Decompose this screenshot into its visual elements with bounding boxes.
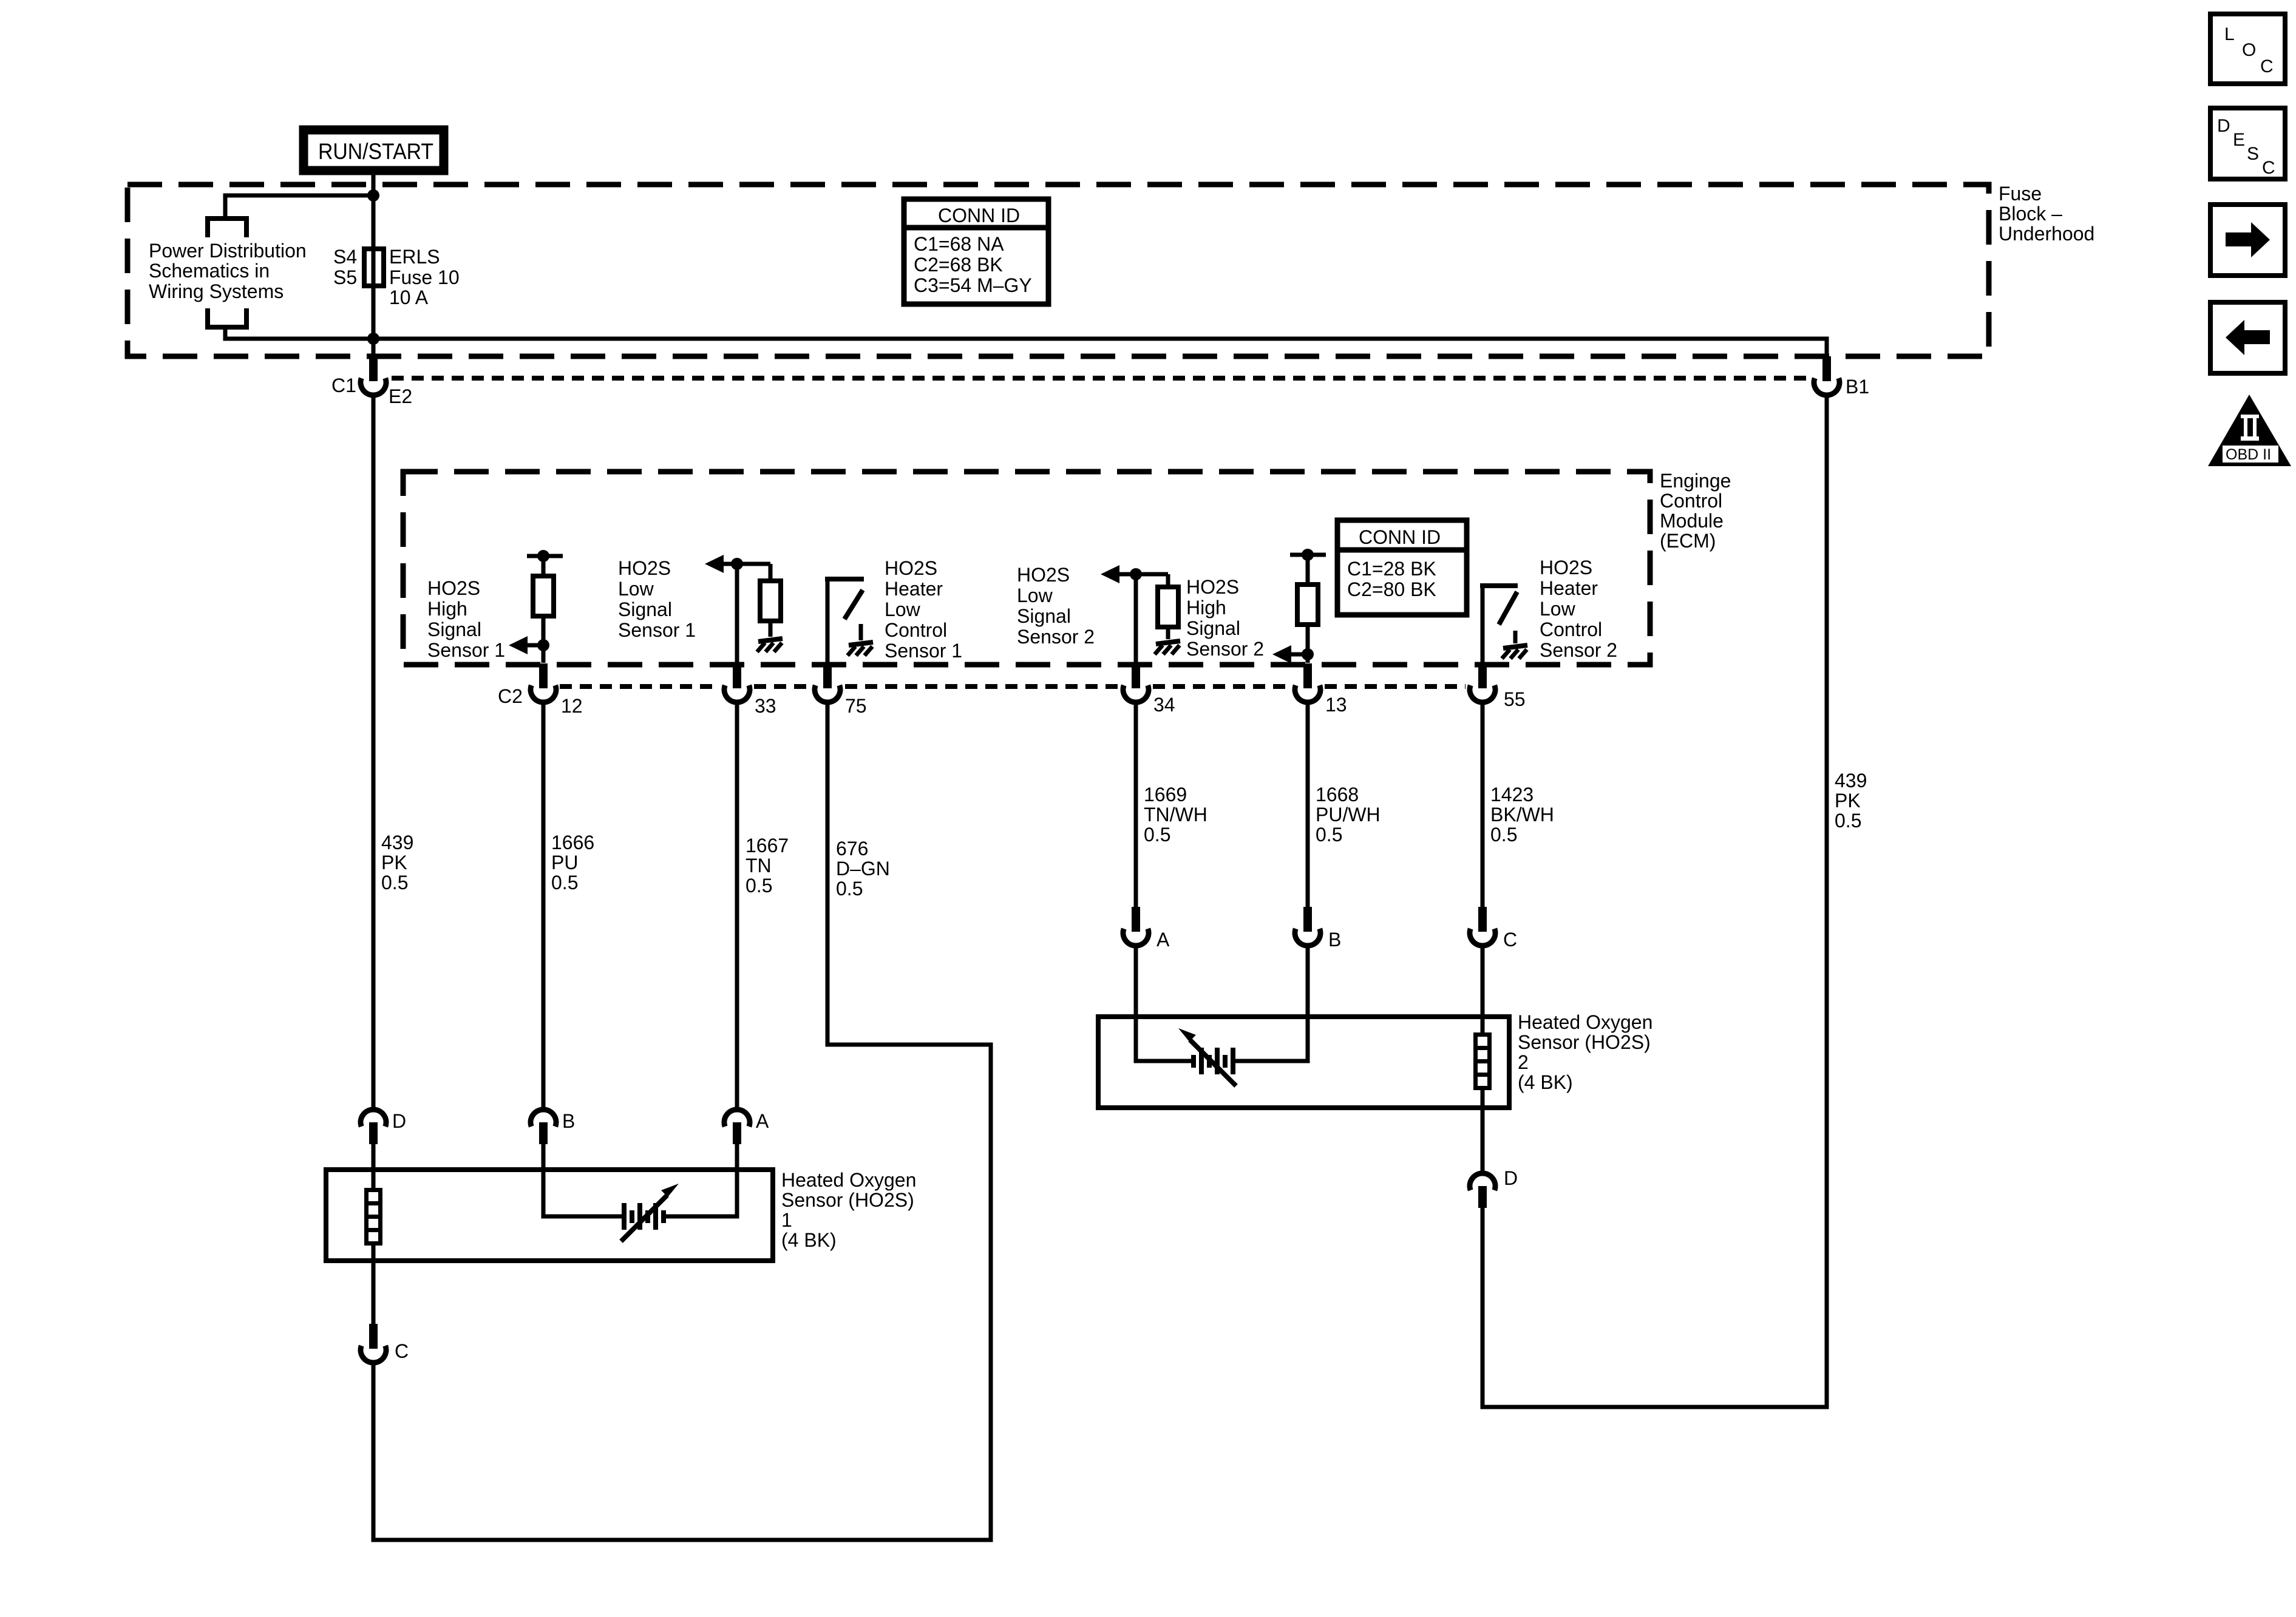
engine control module ECM (dashed box) [403,472,1650,665]
wire sensor1 C to 676 loop [372,1364,376,1378]
svg-text:D: D [2217,116,2230,136]
wire ignition feed from RUN/START box [372,175,376,249]
svg-text:439: 439 [1835,770,1867,792]
wire 1667 TN (pin 33 to sensor1 A) [735,703,739,1108]
RUN/START ignition feed box [304,130,444,171]
svg-text:C: C [2262,158,2275,178]
svg-text:Signal: Signal [618,598,672,620]
svg-text:10 A: 10 A [389,286,429,308]
transistor switch heater low control 1 [827,579,864,663]
label S4 S5 splice refs [333,246,357,288]
heated oxygen sensor HO2S 2 box [1098,1017,1509,1108]
svg-text:75: 75 [845,695,867,717]
wire 1423 BK/WH (pin 55 to sensor2 C) [1481,703,1485,919]
label HO2S Low Signal Sensor 1 [618,557,696,641]
svg-text:Control: Control [1660,490,1722,512]
svg-text:0.5: 0.5 [551,872,578,893]
resistor HO2S low signal sensor 1 [760,581,781,621]
svg-text:Sensor 1: Sensor 1 [618,619,696,641]
connector B sensor 2 [1295,907,1320,946]
svg-text:Sensor 1: Sensor 1 [885,640,962,662]
svg-text:HO2S: HO2S [618,557,671,579]
svg-text:PK: PK [381,852,407,873]
wire heater feed inside sensor2 [1481,947,1485,1171]
node junction dot group1 [537,639,549,651]
svg-text:B: B [1328,929,1341,951]
svg-text:Control: Control [885,619,947,641]
fuse block - underhood (dashed box) [127,185,1989,356]
svg-text:676: 676 [836,838,868,859]
svg-text:C2=68 BK: C2=68 BK [914,254,1003,276]
power distribution reference box (open bracket component) [208,219,246,327]
label Power Distribution Schematics in Wiring Systems [149,240,307,302]
resistor HO2S low signal sensor 2 [1158,587,1178,627]
heater element sensor 2 [1473,1032,1492,1090]
svg-text:Signal: Signal [427,619,481,640]
node dot top bar group5 [1302,549,1314,561]
svg-text:HO2S: HO2S [1540,557,1592,578]
svg-text:Heater: Heater [1540,577,1598,599]
svg-text:Power Distribution: Power Distribution [149,240,307,262]
svg-text:Underhood: Underhood [1999,223,2094,245]
ground chassis (heater low control 2) [1502,645,1527,659]
svg-text:PU: PU [551,852,578,873]
label 676 D-GN 0.5 [836,838,890,900]
svg-text:Heated Oxygen: Heated Oxygen [1518,1011,1652,1033]
connector A sensor 2 [1123,907,1149,946]
svg-text:D: D [1504,1167,1518,1189]
svg-text:S: S [2247,144,2259,164]
svg-text:Sensor 1: Sensor 1 [427,639,505,661]
svg-text:C1=28 BK: C1=28 BK [1347,558,1436,580]
connector A sensor 1 [724,1110,750,1144]
svg-text:S4: S4 [333,246,357,268]
wire arrow high signal 2 output [1272,645,1308,663]
node junction dot group5 [1302,648,1314,660]
svg-text:439: 439 [381,832,413,853]
svg-text:CONN ID: CONN ID [1359,526,1441,548]
label 1423 BK/WH 0.5 [1490,784,1554,846]
resistor HO2S high signal sensor 1 [533,576,554,616]
svg-text:Control: Control [1540,619,1602,640]
node junction dot S4 bus [367,189,379,202]
svg-text:B: B [562,1110,575,1132]
connector C1 E2 (fuse block to harness) [361,356,386,395]
label 1669 TN/WH 0.5 [1144,784,1207,846]
svg-text:C1=68 NA: C1=68 NA [914,233,1004,255]
node junction dot S5 bus [367,333,379,345]
svg-text:C2=80 BK: C2=80 BK [1347,578,1436,600]
CONN ID table (ECM connectors) [1337,520,1467,615]
svg-text:Sensor 2: Sensor 2 [1186,638,1264,660]
svg-text:0.5: 0.5 [1490,824,1517,846]
svg-text:C: C [1503,929,1517,951]
svg-text:B1: B1 [1846,376,1869,398]
svg-text:(4 BK): (4 BK) [781,1229,837,1251]
icon forward arrow box [2210,205,2285,276]
svg-text:High: High [1186,597,1226,619]
svg-text:TN/WH: TN/WH [1144,804,1207,825]
connector B1 (fuse block to harness right) [1814,356,1839,395]
svg-text:(ECM): (ECM) [1660,530,1716,552]
wire sensor1 A lead [664,1143,737,1216]
wire dotted connector line C1-B1 [392,376,1812,381]
svg-text:RUN/START: RUN/START [318,139,433,164]
wire from reference box to S5 junction [225,327,373,339]
svg-text:C2: C2 [498,685,523,707]
svg-text:(4 BK): (4 BK) [1518,1071,1573,1093]
label HO2S Heater Low Control Sensor 1 [885,557,962,662]
svg-text:Signal: Signal [1186,617,1240,639]
svg-text:HO2S: HO2S [427,577,480,599]
svg-text:HO2S: HO2S [885,557,937,579]
connector D sensor 1 [361,1110,386,1144]
icon LOC box [2210,14,2285,84]
svg-text:Fuse: Fuse [1999,183,2042,205]
wire resistor to ground group4 [1166,627,1170,639]
CONN ID table (fuse block connectors) [904,199,1048,304]
wire arrow low signal 2 output [1101,565,1119,583]
pin 33 connector [724,663,750,702]
label HO2S High Signal Sensor 2 [1186,576,1264,660]
label 1668 PU/WH 0.5 [1316,784,1381,846]
ground chassis (heater low control 1) [847,642,873,656]
pin 34 connector [1123,663,1149,702]
node junction dot group4 [1130,568,1142,580]
svg-text:Low: Low [618,578,654,600]
svg-text:33: 33 [755,695,776,717]
svg-text:Low: Low [1017,585,1053,606]
svg-text:Sensor 2: Sensor 2 [1017,626,1095,648]
ground chassis (low signal sensor 1) [757,639,783,652]
svg-text:PK: PK [1835,790,1861,812]
svg-text:D–GN: D–GN [836,858,890,880]
wire fuse to lower junction [372,286,376,359]
fuse ERLS Fuse 10 10A [364,249,384,286]
wire branch to power distribution reference [225,195,373,219]
svg-text:Heated Oxygen: Heated Oxygen [781,1169,916,1191]
svg-text:C1: C1 [331,375,356,396]
svg-text:Schematics in: Schematics in [149,260,270,282]
label Heated Oxygen Sensor (HO2S) 1 (4 BK) [781,1169,916,1251]
svg-text:0.5: 0.5 [1835,810,1861,832]
svg-text:Signal: Signal [1017,605,1071,627]
node junction dot group2 [731,558,743,570]
svg-text:Low: Low [885,598,921,620]
svg-text:A: A [1156,929,1170,951]
label 439 PK 0.5 left [381,832,413,893]
wire HO2S high signal 1 internal [527,556,563,663]
resistor HO2S high signal sensor 2 [1297,585,1318,625]
wire arrow high signal 1 output [509,636,543,654]
svg-text:1666: 1666 [551,832,594,853]
connector C sensor 2 [1470,907,1495,946]
label ERLS Fuse 10 10 A [389,246,460,308]
svg-text:Heater: Heater [885,578,943,600]
svg-text:0.5: 0.5 [1144,824,1170,846]
svg-text:Sensor (HO2S): Sensor (HO2S) [781,1189,914,1211]
svg-text:BK/WH: BK/WH [1490,804,1554,825]
svg-text:E2: E2 [389,385,412,407]
pin 12 connector [531,663,556,702]
wire 676 D-GN (pin 75 heater control) [373,703,991,1540]
svg-text:Wiring Systems: Wiring Systems [149,280,284,302]
svg-text:Fuse 10: Fuse 10 [389,266,460,288]
svg-text:12: 12 [561,695,583,717]
svg-text:1667: 1667 [746,835,789,856]
svg-text:High: High [427,598,467,620]
sensing element sensor 1 (variable cell) [621,1184,679,1241]
wire sensor2 A lead [1136,947,1193,1061]
wire dotted ECM connector line C2 [560,684,1466,689]
svg-text:OBD II: OBD II [2226,446,2271,463]
svg-text:HO2S: HO2S [1017,564,1070,586]
icon OBD II triangle [2208,395,2291,466]
label 1666 PU 0.5 [551,832,594,893]
transistor switch heater low control 2 [1483,586,1518,663]
svg-text:Module: Module [1660,510,1724,532]
svg-text:Enginge: Enginge [1660,470,1731,492]
svg-text:C: C [395,1340,409,1362]
ground chassis (low signal sensor 2) [1155,641,1180,654]
svg-text:0.5: 0.5 [1316,824,1342,846]
svg-text:1668: 1668 [1316,784,1359,805]
connector D sensor 2 [1470,1173,1495,1208]
wire 1669 TN/WH (pin 34 to sensor2 A) [1134,703,1138,919]
svg-text:Sensor 2: Sensor 2 [1540,639,1617,661]
svg-text:1: 1 [781,1209,792,1231]
wire HO2S high signal 2 internal [1290,555,1326,663]
label HO2S Low Signal Sensor 2 [1017,564,1095,648]
connector C sensor 1 [361,1324,386,1363]
svg-text:D: D [392,1110,406,1132]
svg-text:TN: TN [746,855,772,876]
heated oxygen sensor HO2S 1 box [326,1170,773,1261]
heater element sensor 1 [364,1188,382,1246]
sensing element sensor 2 (variable cell mirrored) [1178,1028,1236,1086]
svg-text:0.5: 0.5 [381,872,408,893]
pin 55 connector [1470,663,1495,702]
wire stem to ground group3 [859,624,863,640]
wire HO2S low signal 1 internal [712,564,770,663]
label HO2S High Signal Sensor 1 [427,577,505,661]
label 439 PK 0.5 right [1835,770,1867,832]
svg-text:1669: 1669 [1144,784,1187,805]
wire resistor to ground group2 [769,621,773,637]
svg-text:A: A [756,1110,769,1132]
pin 13 connector [1295,663,1320,702]
icon DESC box [2210,108,2285,179]
connector B sensor 1 [531,1110,556,1144]
wire HO2S low signal 2 internal [1107,574,1168,663]
wire arrow low signal 1 output [705,555,724,573]
wire 439 PK right (B1 to sensor2 D) [1483,396,1827,1407]
wire 1666 PU (pin 12 to sensor1 B) [542,703,546,1108]
svg-text:Sensor (HO2S): Sensor (HO2S) [1518,1031,1651,1053]
svg-text:Low: Low [1540,598,1576,620]
svg-text:CONN ID: CONN ID [938,205,1020,226]
wire sensor2 B lead [1235,947,1308,1061]
svg-text:1423: 1423 [1490,784,1533,805]
label Enginge Control Module (ECM) [1660,470,1731,552]
svg-text:HO2S: HO2S [1186,576,1239,598]
svg-text:L: L [2224,24,2235,44]
node dot top bar group1 [537,550,549,562]
svg-text:34: 34 [1153,694,1175,716]
svg-text:C3=54 M–GY: C3=54 M–GY [914,274,1032,296]
svg-text:PU/WH: PU/WH [1316,804,1381,825]
svg-text:Block –: Block – [1999,203,2062,225]
svg-text:2: 2 [1518,1051,1529,1073]
label 1667 TN 0.5 [746,835,789,897]
label Heated Oxygen Sensor (HO2S) 2 (4 BK) [1518,1011,1652,1093]
svg-text:S5: S5 [333,266,357,288]
label Fuse Block - Underhood [1999,183,2094,245]
wire heater feed inside sensor1 [372,1143,376,1326]
wire sensor1 B lead [543,1143,622,1216]
svg-text:13: 13 [1325,694,1347,716]
wire stem to ground group6 [1513,631,1518,643]
svg-text:E: E [2233,130,2245,150]
label HO2S Heater Low Control Sensor 2 [1540,557,1617,661]
svg-text:55: 55 [1504,688,1526,710]
pin 75 connector [815,663,840,702]
svg-text:ERLS: ERLS [389,246,440,268]
svg-text:0.5: 0.5 [746,875,772,897]
wire main feed bus to B1 [373,339,1827,359]
wire 439 PK left (circuit 439) [372,396,376,1108]
icon back arrow box [2210,302,2285,373]
wire 1668 PU/WH (pin 13 to sensor2 B) [1306,703,1310,919]
svg-text:0.5: 0.5 [836,878,863,900]
svg-text:O: O [2242,40,2256,60]
svg-text:C: C [2260,56,2274,76]
